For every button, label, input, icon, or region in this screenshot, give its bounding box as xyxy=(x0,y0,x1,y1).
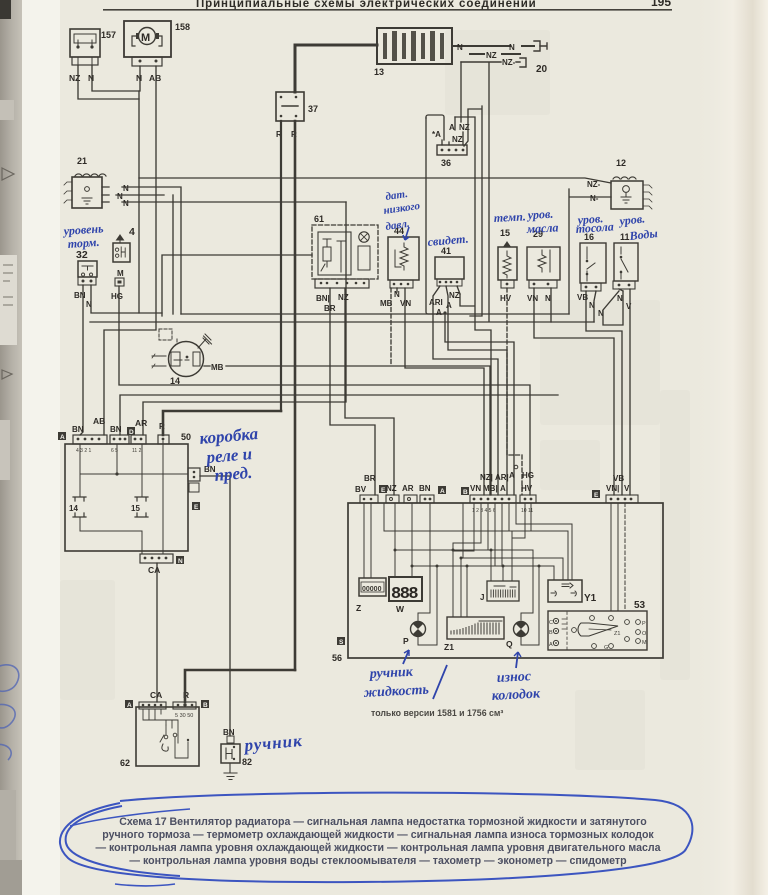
svg-text:W: W xyxy=(396,604,405,614)
svg-text:AR: AR xyxy=(135,418,147,428)
svg-text:уров.: уров. xyxy=(525,207,553,222)
svg-text:CA: CA xyxy=(150,690,162,700)
svg-text:N: N xyxy=(509,43,515,52)
svg-text:торм.: торм. xyxy=(67,235,100,251)
svg-text:M: M xyxy=(117,269,124,278)
svg-text:11 2: 11 2 xyxy=(132,448,142,454)
connector strip A xyxy=(73,435,107,444)
svg-text:A: A xyxy=(449,123,455,132)
svg-text:HG: HG xyxy=(522,471,534,480)
svg-text:15: 15 xyxy=(131,504,140,513)
svg-text:MB: MB xyxy=(211,363,224,372)
wire NZ from line 20 down to 36 xyxy=(461,62,463,145)
connector CA bottom xyxy=(140,554,173,563)
econometer Y1 xyxy=(548,580,597,604)
junction dots xyxy=(394,549,397,552)
handbrake switch 82 xyxy=(221,728,252,767)
wire A* to instrument upper A xyxy=(445,314,514,495)
svg-text:56: 56 xyxy=(332,653,342,663)
blue pen smudges left margin xyxy=(0,665,19,760)
wire A into 36 pin2 xyxy=(449,117,455,145)
wire A down along 41 to instrument upper A xyxy=(464,106,482,316)
svg-text:пред.: пред. xyxy=(214,463,253,485)
marker S left edge xyxy=(337,637,345,645)
svg-text:M: M xyxy=(642,640,647,646)
wire NZ pin to bus H1 xyxy=(384,503,512,581)
wire A 41 to instrument A xyxy=(446,286,507,495)
svg-text:HG: HG xyxy=(111,292,123,301)
thermo switch 157 xyxy=(69,29,116,83)
svg-text:ARI: ARI xyxy=(429,298,443,307)
digital display W xyxy=(389,577,422,614)
fan motor 158 xyxy=(124,21,190,83)
svg-text:E: E xyxy=(594,492,599,499)
lamp unit 12 xyxy=(611,158,652,209)
svg-text:P: P xyxy=(642,621,646,627)
internal wires xyxy=(80,444,142,553)
svg-text:14: 14 xyxy=(170,376,180,386)
bus H2 with drops to W, Z1, J, Q xyxy=(395,503,533,620)
svg-text:4 3 2 1: 4 3 2 1 xyxy=(76,448,92,454)
ghost print-through artifacts xyxy=(60,30,690,770)
svg-text:N: N xyxy=(457,43,463,52)
wire R left from 37 down to fusebox feed xyxy=(280,121,282,411)
wire BN from 32 down to relay box xyxy=(80,285,83,435)
svg-text:14: 14 xyxy=(69,504,78,513)
svg-text:NZ: NZ xyxy=(486,51,497,60)
wire HV 15 dashed to instrument HV xyxy=(507,288,522,495)
wire from 21 to relay box AR xyxy=(172,195,174,314)
bus H4 long with drops xyxy=(412,503,554,645)
right page-curl band xyxy=(690,0,768,895)
svg-text:N: N xyxy=(617,294,623,303)
svg-text:AR|: AR| xyxy=(495,473,509,482)
right connector xyxy=(606,495,638,503)
svg-text:N: N xyxy=(178,558,183,565)
svg-text:HV: HV xyxy=(521,484,533,493)
wires BV BR to odometer Z xyxy=(364,503,371,578)
connector BN xyxy=(420,495,434,503)
svg-text:53: 53 xyxy=(634,600,646,611)
wire NZ- from 20 down right of 41 xyxy=(488,63,490,321)
svg-text:AB: AB xyxy=(149,73,161,83)
wire VN 44 to instrument VN xyxy=(405,288,484,495)
alternator 21 xyxy=(64,156,106,208)
wire NZ 157 down then right xyxy=(78,66,139,99)
wire N top from 21 (ground) xyxy=(102,187,181,314)
relay unit 61 xyxy=(312,214,378,313)
instrument panel 56 xyxy=(332,465,663,663)
svg-text:Схема 17 Вентилятор радиатора: Схема 17 Вентилятор радиатора — сигнальн… xyxy=(119,816,647,828)
svg-text:Принципиальные схемы электриче: Принципиальные схемы электрических соеди… xyxy=(196,0,537,10)
svg-text:12: 12 xyxy=(616,158,626,168)
svg-text:износ: износ xyxy=(496,669,532,686)
svg-text:BN: BN xyxy=(72,425,84,434)
wire NZ to connector 20 xyxy=(470,53,520,55)
white page-edge band xyxy=(22,0,60,895)
svg-text:VB: VB xyxy=(613,474,624,483)
svg-text:20: 20 xyxy=(536,64,548,75)
wire N 29 to ground bus xyxy=(550,288,552,322)
handwritten annotations xyxy=(61,188,658,755)
wire node to ground bus xyxy=(138,91,140,313)
odometer Z xyxy=(356,578,386,613)
wire NZ 61 to instrument NZ xyxy=(345,288,394,495)
ground bus mid xyxy=(90,321,594,323)
temp sender 15 xyxy=(498,228,517,303)
annotation arrows xyxy=(403,650,521,699)
sender 4 xyxy=(111,226,135,301)
svg-text:157: 157 xyxy=(101,30,116,40)
svg-text:Y1: Y1 xyxy=(584,593,597,604)
wire ARI 41 to instrument AR xyxy=(433,286,498,495)
wire VN 29 to instrument right VN xyxy=(534,288,614,495)
svg-text:тосола: тосола xyxy=(575,219,614,236)
thick wire to R of 62 xyxy=(185,670,295,702)
svg-text:V: V xyxy=(626,302,632,311)
svg-text:10 11: 10 11 xyxy=(521,508,533,514)
svg-text:158: 158 xyxy=(175,22,190,32)
svg-text:00000: 00000 xyxy=(362,586,382,593)
svg-text:15: 15 xyxy=(500,228,510,238)
left neighbour-page strip xyxy=(0,0,24,895)
connector NZ xyxy=(386,495,399,503)
wire N 44 stub xyxy=(396,288,398,292)
svg-text:B: B xyxy=(203,702,208,709)
svg-text:888: 888 xyxy=(391,585,418,604)
svg-text:масла: масла xyxy=(525,220,558,236)
svg-text:BN: BN xyxy=(419,484,431,493)
svg-text:NZ|: NZ| xyxy=(480,473,493,482)
svg-text:NZ: NZ xyxy=(338,293,349,302)
svg-text:N: N xyxy=(136,73,142,83)
svg-text:темп.: темп. xyxy=(493,209,526,225)
svg-text:J: J xyxy=(480,593,484,602)
svg-text:NZ: NZ xyxy=(386,484,397,493)
svg-text:*A: *A xyxy=(432,130,441,139)
wire N from 32 to ground rail xyxy=(91,285,162,313)
svg-text:VN|: VN| xyxy=(606,484,619,493)
svg-text:уров.: уров. xyxy=(617,211,646,228)
bus H3 to Z1 and Y1 xyxy=(461,503,563,617)
wire N 157 to N 158 junction xyxy=(92,66,140,91)
svg-text:B: B xyxy=(549,630,553,636)
svg-text:61: 61 xyxy=(314,214,324,224)
washer level switch 11 xyxy=(613,232,638,311)
svg-text:BR: BR xyxy=(364,474,376,483)
speedometer 53 xyxy=(548,600,647,651)
fuse 15 xyxy=(135,497,148,517)
coolant level switch 16 xyxy=(577,232,606,318)
svg-text:ручник: ручник xyxy=(368,665,414,682)
arrow to lamp P xyxy=(403,650,409,664)
svg-text:62: 62 xyxy=(120,758,130,768)
ground rail right xyxy=(181,313,569,315)
svg-text:Z1: Z1 xyxy=(444,642,454,652)
svg-text:A: A xyxy=(509,471,515,480)
svg-text:82: 82 xyxy=(242,757,252,767)
svg-text:— контрольная лампа уровня охл: — контрольная лампа уровня охлаждающей ж… xyxy=(95,842,660,854)
svg-text:AB: AB xyxy=(93,416,105,426)
connector 20 xyxy=(520,41,548,75)
svg-text:NZ: NZ xyxy=(452,135,463,144)
warning lamp P xyxy=(403,622,426,647)
svg-text:A: A xyxy=(127,702,132,709)
svg-text:A: A xyxy=(549,642,553,648)
svg-text:N: N xyxy=(88,73,94,83)
svg-text:V: V xyxy=(624,484,630,493)
svg-text:4: 4 xyxy=(129,226,135,238)
wire pin4 41 down xyxy=(457,286,460,294)
svg-text:S: S xyxy=(339,639,344,646)
oil level sender 29 xyxy=(527,229,560,303)
connector AR xyxy=(404,495,417,503)
svg-text:NZ-: NZ- xyxy=(587,180,601,189)
svg-text:Z: Z xyxy=(356,603,361,613)
svg-text:N: N xyxy=(123,199,129,208)
caption oval xyxy=(60,793,692,886)
svg-text:ручного тормоза — термометр ох: ручного тормоза — термометр охлаждающей … xyxy=(102,829,654,841)
big connector xyxy=(470,495,516,503)
left margin scan artifacts xyxy=(0,100,22,895)
brake fluid sensor 32 xyxy=(74,249,97,309)
wire AB from 158 down xyxy=(104,66,156,435)
svg-text:N: N xyxy=(545,294,551,303)
svg-text:O: O xyxy=(642,631,647,637)
svg-text:11: 11 xyxy=(620,232,630,242)
wire N mid from 21 xyxy=(102,194,164,196)
wire BR 61 to instrument BV xyxy=(330,288,375,495)
svg-text:13: 13 xyxy=(374,67,384,77)
svg-text:50: 50 xyxy=(181,432,191,442)
svg-text:N-: N- xyxy=(590,194,599,203)
svg-text:A: A xyxy=(436,308,442,317)
fuse strip 13 xyxy=(374,28,452,77)
wire VB 16 to instrument VB xyxy=(586,291,622,495)
svg-text:A: A xyxy=(60,434,65,441)
svg-text:только версии 1581 и 1756 см³: только версии 1581 и 1756 см³ xyxy=(371,708,503,718)
wire N 11 label stub xyxy=(619,289,623,291)
ground bus upper short xyxy=(162,255,312,316)
lamp Q return wire xyxy=(521,566,539,645)
tachometer Z1 xyxy=(444,617,504,652)
svg-text:— контрольная лампа уровня вод: — контрольная лампа уровня воды стеклоом… xyxy=(129,855,627,867)
wire MB from 14 to instrument MB xyxy=(204,366,490,495)
lamp P return wire xyxy=(418,637,437,645)
thick feed wire 13 to relay 37 xyxy=(295,45,377,92)
svg-text:VN: VN xyxy=(527,294,538,303)
marker D xyxy=(127,427,135,435)
svg-text:1 2 3 4 5 6: 1 2 3 4 5 6 xyxy=(472,508,496,514)
svg-text:5 30 50: 5 30 50 xyxy=(175,713,193,719)
svg-text:Z1: Z1 xyxy=(614,631,620,637)
note: arrow to sender 44 xyxy=(403,227,409,240)
wire MB 44 dashed to MB bus xyxy=(390,288,392,365)
svg-text:NZ-: NZ- xyxy=(502,58,516,67)
wire HV pins stair to J xyxy=(512,503,531,538)
connector strip AR xyxy=(131,435,146,444)
svg-text:A: A xyxy=(440,488,445,495)
fuse and relay box 50 xyxy=(58,416,200,575)
svg-text:MB|: MB| xyxy=(483,484,498,493)
svg-text:M: M xyxy=(141,32,150,44)
connector BV/BR xyxy=(360,495,378,503)
dashed wire to 53 xyxy=(624,503,626,611)
wire NZ lower to connector 20 xyxy=(461,61,520,63)
svg-text:Q: Q xyxy=(506,639,513,649)
wire NZ down to unit 41 xyxy=(455,117,491,495)
svg-text:BN|: BN| xyxy=(316,294,330,303)
wire bracket stem down to 41 A* pin xyxy=(426,118,443,314)
wire feeder to relay box D xyxy=(120,395,558,435)
header rule xyxy=(103,9,672,11)
svg-text:BN: BN xyxy=(110,425,122,434)
caption text xyxy=(95,816,660,867)
big connector pins stair xyxy=(453,503,572,580)
svg-text:C: C xyxy=(549,620,553,626)
fuse 14 xyxy=(73,497,86,517)
wires to speedometer 53 xyxy=(611,503,618,611)
slash after handbrake note xyxy=(433,665,447,699)
wire bracket into 36 pin1 xyxy=(426,115,444,145)
relay 37 xyxy=(276,92,318,139)
indicator unit 41 xyxy=(429,246,464,317)
arrow to lamp Q xyxy=(516,652,518,668)
svg-text:195: 195 xyxy=(651,0,671,9)
ground for 82 xyxy=(224,763,237,780)
svg-text:HV: HV xyxy=(500,294,512,303)
wire from 21 low to instrument BN xyxy=(143,202,346,435)
wire CA from 50 down to ignition switch 62 xyxy=(156,563,158,702)
svg-text:E: E xyxy=(194,504,199,511)
svg-text:N: N xyxy=(123,184,129,193)
wire N 16 to ground bus xyxy=(594,291,623,325)
svg-text:VN: VN xyxy=(470,484,481,493)
ignition switch 62 xyxy=(120,690,209,768)
svg-text:колодок: колодок xyxy=(491,686,541,704)
small connector HV xyxy=(520,495,536,503)
dark top-left corner xyxy=(0,0,11,19)
svg-text:P: P xyxy=(403,636,409,646)
thick feed bus to R of 50 xyxy=(163,411,281,435)
svg-text:32: 32 xyxy=(76,249,88,261)
internal harness of 56 xyxy=(364,503,625,645)
wire R right from 37 down to ignition feed xyxy=(294,121,297,670)
wire BN pin down to lamp P xyxy=(418,503,430,622)
NZ bus to lamp unit 12 xyxy=(139,178,611,183)
svg-text:NZ: NZ xyxy=(449,291,460,300)
svg-text:B: B xyxy=(463,489,468,496)
svg-text:21: 21 xyxy=(77,156,87,166)
wire BN from E connector to handbrake 82 xyxy=(200,476,230,736)
oil pressure sender 44 xyxy=(380,226,419,308)
wire HG from 4 to instrument HG xyxy=(119,286,530,495)
svg-text:BV: BV xyxy=(355,485,367,494)
distributor 14 xyxy=(152,329,212,386)
wire N low from 21 xyxy=(102,201,346,203)
svg-text:36: 36 xyxy=(441,158,451,168)
connector E right side xyxy=(188,468,200,481)
svg-text:BN: BN xyxy=(74,291,86,300)
connector pin R xyxy=(158,435,169,444)
svg-text:A: A xyxy=(446,301,452,310)
svg-text:G: G xyxy=(604,645,608,651)
svg-text:37: 37 xyxy=(308,104,318,114)
warning lamp Q xyxy=(506,622,529,650)
svg-text:D: D xyxy=(129,429,134,436)
svg-text:AR: AR xyxy=(402,484,414,493)
svg-text:A: A xyxy=(500,484,506,493)
internal supply rail xyxy=(80,473,188,475)
svg-text:CA: CA xyxy=(148,565,160,575)
N wire from 12 to ground rail xyxy=(569,189,611,314)
connector strip D xyxy=(110,435,129,444)
marker A xyxy=(58,432,66,440)
bar gauge J xyxy=(480,581,519,602)
wire N from 13 to connector 20 xyxy=(452,45,534,47)
connector 36 xyxy=(432,123,470,168)
wire V 11 to instrument V xyxy=(629,289,631,495)
